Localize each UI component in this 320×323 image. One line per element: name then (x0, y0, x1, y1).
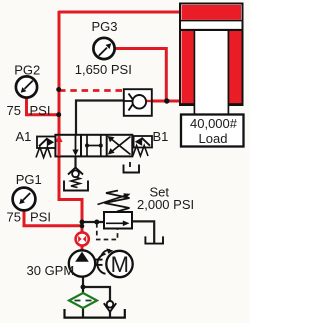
svg-text:75: 75 (7, 103, 21, 118)
svg-text:PG2: PG2 (14, 63, 40, 78)
svg-text:Load: Load (199, 131, 228, 146)
svg-text:1,650 PSI: 1,650 PSI (75, 62, 132, 77)
svg-text:B1: B1 (153, 129, 169, 144)
svg-text:M: M (111, 252, 129, 277)
svg-text:PSI: PSI (30, 103, 51, 118)
svg-text:A1: A1 (16, 129, 32, 144)
svg-text:PSI: PSI (30, 210, 51, 225)
svg-text:2,000 PSI: 2,000 PSI (137, 197, 194, 212)
svg-text:PG1: PG1 (16, 172, 42, 187)
svg-text:30 GPM: 30 GPM (27, 263, 75, 278)
svg-text:40,000#: 40,000# (190, 116, 238, 131)
svg-text:75: 75 (7, 210, 21, 225)
svg-text:PG3: PG3 (91, 19, 117, 34)
